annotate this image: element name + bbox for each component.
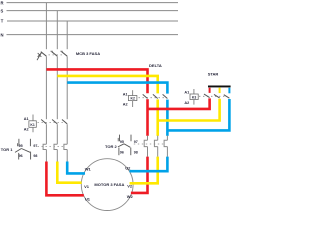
K2 linkage (dashed) <box>139 97 165 99</box>
contactor K3 pole 3 <box>224 95 230 99</box>
svg-text:W1: W1 <box>85 166 92 171</box>
svg-text:N: N <box>1 32 4 37</box>
svg-text:95: 95 <box>19 144 23 148</box>
svg-text:S: S <box>1 8 4 13</box>
svg-text:K1: K1 <box>30 123 34 127</box>
label DELTA <box>149 63 162 68</box>
K1 linkage (dashed) <box>38 121 65 123</box>
terminal W1 <box>85 166 92 171</box>
contactor K2 pole 1 <box>143 94 148 98</box>
label TOR 1 <box>1 147 13 152</box>
wire R feed (red) to delta K2 <box>46 69 147 93</box>
K3 pole 2 top stub (yellow) <box>219 88 221 93</box>
TOR1 heater 3 <box>64 144 67 162</box>
svg-text:96: 96 <box>120 150 124 154</box>
svg-text:STAR: STAR <box>208 72 219 77</box>
contactor K1 coil <box>24 115 37 133</box>
contactor K1 pole 3 <box>62 120 67 124</box>
contactor K3 coil <box>184 89 198 105</box>
svg-text:DELTA: DELTA <box>149 63 162 68</box>
wire W2 (red) <box>131 157 148 193</box>
svg-text:T: T <box>1 19 4 24</box>
terminal U1 <box>85 197 91 202</box>
wire K1 out 3 <box>66 124 68 144</box>
svg-text:V2: V2 <box>127 184 133 189</box>
wire V2 (yellow) <box>130 157 158 184</box>
node R (phase rail) <box>1 0 179 5</box>
MCB linkage (dashed) <box>49 54 64 56</box>
MCB pole 1 with operator <box>37 52 46 61</box>
wire K2 out 2 (yellow) to TOR2 <box>156 99 159 135</box>
contactor K2 pole 2 <box>153 94 158 98</box>
wire delta2-star2 (yellow) <box>158 99 220 121</box>
label MOTOR 3 FASA <box>94 182 124 187</box>
terminal U2 <box>125 166 131 171</box>
K3 pole 1 top stub (red) <box>209 88 211 93</box>
wire K1 out 1 <box>45 124 47 144</box>
svg-text:U2: U2 <box>125 166 131 171</box>
svg-text:A2: A2 <box>24 128 29 132</box>
TOR2 heater 1 <box>144 136 147 157</box>
svg-text:TOR 1: TOR 1 <box>1 147 13 152</box>
MCB pole 2 <box>51 51 58 56</box>
TOR2 linkage (dashed) <box>134 143 165 145</box>
svg-text:V1: V1 <box>84 184 90 189</box>
svg-text:97: 97 <box>134 140 138 144</box>
wire T drop <box>66 21 68 49</box>
terminal W2 <box>127 194 134 199</box>
wire MCB out 2 to K1 <box>56 56 58 119</box>
svg-text:95: 95 <box>120 140 124 144</box>
K3 linkage (dashed) <box>199 95 226 97</box>
contactor K2 pole 3 <box>163 94 168 98</box>
wire S drop <box>56 11 58 50</box>
TOR1 aux contact 97-98 <box>21 139 37 160</box>
svg-text:98: 98 <box>33 154 37 158</box>
node S (phase rail) <box>1 8 179 13</box>
wire U2 (blue) <box>130 157 168 172</box>
svg-text:A2: A2 <box>123 103 128 107</box>
svg-text:W2: W2 <box>127 194 134 199</box>
svg-text:K2: K2 <box>131 97 135 101</box>
wire K1 out 2 <box>56 124 58 144</box>
star point bar <box>208 86 231 88</box>
terminal V1 <box>84 184 90 189</box>
TOR2 aux contact 95-96 <box>118 135 124 156</box>
svg-text:98: 98 <box>134 150 138 154</box>
TOR1 linkage (dashed) <box>34 146 65 148</box>
TOR1 heater 2 <box>54 144 57 162</box>
svg-text:TOR 2: TOR 2 <box>105 144 117 149</box>
contactor K1 pole 2 <box>52 120 57 124</box>
svg-text:96: 96 <box>19 154 23 158</box>
wire S feed (yellow) to delta K2 <box>57 76 157 94</box>
TOR2 heater 2 <box>154 136 157 157</box>
wire MCB out 3 to K1 <box>66 56 68 119</box>
wire K2 out 3 (blue) to TOR2 <box>166 100 169 136</box>
wire V1 (yellow) <box>57 162 81 183</box>
svg-text:97: 97 <box>33 144 37 148</box>
TOR1 aux contact 95-96 <box>15 139 23 160</box>
contactor K3 pole 2 <box>214 94 220 98</box>
wire U1 (red) <box>46 162 83 196</box>
svg-text:A1: A1 <box>123 92 128 96</box>
K3 pole 3 top stub (blue) <box>228 88 230 94</box>
label TOR 2 <box>105 144 117 149</box>
MCB pole 3 <box>60 51 67 56</box>
node T (phase rail) <box>1 19 178 24</box>
motor M1 body <box>81 159 133 211</box>
wire MCB out 1 to K1 <box>45 56 47 119</box>
svg-text:R: R <box>1 0 4 5</box>
wire delta3-star3 (blue) <box>167 99 229 130</box>
svg-text:A1: A1 <box>184 91 189 95</box>
wire R drop <box>45 3 47 50</box>
label MCB 3 FASA <box>76 51 100 56</box>
contactor K2 coil <box>123 90 137 107</box>
wire T feed (blue) to delta K2 <box>67 83 167 94</box>
wire W1 (blue) <box>67 162 85 174</box>
terminal V2 <box>127 184 133 189</box>
svg-text:MOTOR 3 FASA: MOTOR 3 FASA <box>94 182 124 187</box>
node N (neutral rail) <box>1 32 179 37</box>
svg-text:A2: A2 <box>184 101 189 105</box>
label STAR <box>208 72 219 77</box>
svg-text:U1: U1 <box>85 197 91 202</box>
wire delta1-star1 (red) <box>148 98 210 109</box>
svg-text:K3: K3 <box>192 95 196 99</box>
svg-text:MCB 3 FASA: MCB 3 FASA <box>76 51 100 56</box>
wire K2 out 1 (red) to TOR2 <box>146 99 149 136</box>
TOR1 heater 1 <box>43 144 46 162</box>
TOR2 aux contact 97-98 <box>124 135 138 156</box>
TOR2 heater 3 <box>164 136 167 157</box>
contactor K1 pole 1 <box>41 120 46 124</box>
contactor K3 pole 1 <box>204 94 210 98</box>
svg-text:A1: A1 <box>24 117 29 121</box>
